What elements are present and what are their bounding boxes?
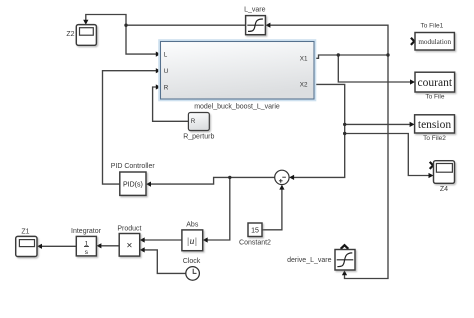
svg-text:To File1: To File1 bbox=[421, 22, 444, 29]
svg-text:PID Controller: PID Controller bbox=[111, 163, 156, 170]
svg-text:Product: Product bbox=[117, 225, 141, 232]
svg-text:Integrator: Integrator bbox=[71, 228, 102, 235]
svg-text:tension: tension bbox=[418, 119, 451, 131]
svg-text:15: 15 bbox=[251, 228, 259, 235]
svg-text:U: U bbox=[164, 68, 169, 75]
svg-text:|u|: |u| bbox=[187, 237, 197, 247]
svg-text:L_vare: L_vare bbox=[244, 7, 266, 14]
svg-text:PID(s): PID(s) bbox=[123, 182, 143, 189]
svg-text:Clock: Clock bbox=[183, 258, 201, 265]
svg-text:derive_L_vare: derive_L_vare bbox=[287, 257, 331, 264]
svg-text:To File: To File bbox=[425, 94, 445, 101]
svg-text:model_buck_boost_L_varie: model_buck_boost_L_varie bbox=[194, 103, 280, 110]
svg-text:To File2: To File2 bbox=[423, 135, 446, 142]
svg-text:X2: X2 bbox=[300, 82, 308, 89]
svg-text:Z1: Z1 bbox=[21, 228, 29, 235]
svg-text:R: R bbox=[164, 84, 169, 91]
svg-text:R_perturb: R_perturb bbox=[183, 133, 214, 140]
svg-text:Constant2: Constant2 bbox=[239, 239, 271, 246]
svg-text:Abs: Abs bbox=[186, 222, 199, 229]
svg-text:×: × bbox=[126, 240, 132, 251]
svg-text:courant: courant bbox=[418, 77, 453, 89]
svg-text:R: R bbox=[191, 118, 196, 125]
svg-text:Z2: Z2 bbox=[66, 31, 74, 38]
svg-text:L: L bbox=[164, 51, 168, 58]
svg-text:Z4: Z4 bbox=[440, 186, 448, 193]
svg-text:X1: X1 bbox=[300, 56, 308, 63]
svg-text:modulation: modulation bbox=[418, 38, 451, 46]
